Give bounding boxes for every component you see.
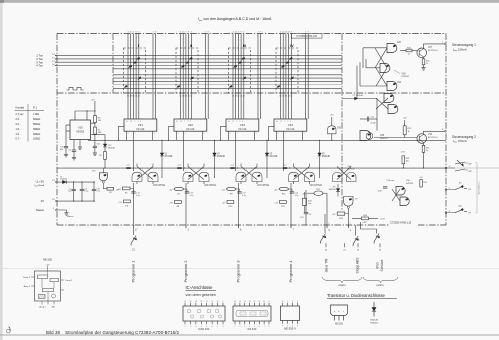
svg-text:1N4148: 1N4148 bbox=[322, 156, 331, 158]
resistor bbox=[403, 126, 406, 135]
block I wire 1 bbox=[127, 34, 129, 120]
svg-text:100kΩ: 100kΩ bbox=[33, 138, 40, 141]
svg-text:14: 14 bbox=[244, 301, 246, 303]
svg-text:V7 1N4148: V7 1N4148 bbox=[353, 95, 364, 97]
svg-text:10: 10 bbox=[276, 121, 278, 123]
IC V21 pin wire bbox=[152, 131, 154, 140]
flipflop cluster V33 bbox=[294, 167, 310, 180]
svg-text:10n: 10n bbox=[60, 149, 63, 151]
svg-text:1: 1 bbox=[134, 121, 135, 123]
flipflop cluster V27 bbox=[241, 167, 257, 180]
program drop wire x186 bbox=[185, 183, 187, 225]
bus return line 2 bbox=[113, 77, 342, 79]
transistor matrix block IV bbox=[276, 48, 298, 93]
filter capacitors bbox=[73, 181, 74, 182]
svg-text:Programm 2: Programm 2 bbox=[183, 260, 188, 283]
wire V5 bbox=[319, 140, 321, 178]
svg-text:Programm 1: Programm 1 bbox=[130, 260, 135, 283]
capacitor C15 bbox=[186, 189, 188, 192]
svg-text:4: 4 bbox=[242, 121, 243, 123]
resistor bbox=[94, 127, 97, 134]
wire V30 up bbox=[331, 117, 333, 126]
transistor matrix block I bbox=[124, 48, 146, 93]
svg-text:Ausg 2: Ausg 2 bbox=[24, 285, 31, 288]
bus tone line 4 bbox=[57, 65, 342, 67]
svg-text:13: 13 bbox=[232, 121, 234, 123]
svg-text:+5V: +5V bbox=[118, 202, 122, 204]
switch Z1 bbox=[131, 236, 136, 246]
V20 pin right a bbox=[91, 122, 95, 124]
svg-text:1N4001: 1N4001 bbox=[60, 179, 68, 181]
capacitor bbox=[230, 167, 234, 168]
svg-text:1N4148: 1N4148 bbox=[328, 189, 336, 191]
IC V22 pin wire bbox=[183, 131, 185, 140]
svg-text:Aus: Aus bbox=[459, 205, 463, 208]
svg-text:16: 16 bbox=[234, 301, 236, 303]
IC V23 pin wire bbox=[228, 131, 230, 140]
svg-text:13: 13 bbox=[249, 301, 251, 303]
IC V21 pin wire bbox=[126, 131, 128, 140]
svg-text:+5V: +5V bbox=[274, 203, 278, 205]
svg-text:R 1: R 1 bbox=[33, 106, 38, 110]
svg-text:FZH111: FZH111 bbox=[348, 168, 356, 170]
resistor bbox=[280, 201, 287, 204]
IC V24 pin wire bbox=[283, 131, 285, 140]
DIP1 internal gate doodles bbox=[187, 309, 191, 313]
capacitor bbox=[92, 189, 96, 190]
svg-text:extern: extern bbox=[376, 283, 384, 287]
wire rail to V20 pin bbox=[86, 111, 88, 120]
wire V9 down bbox=[347, 208, 349, 225]
svg-text:+5V: +5V bbox=[46, 264, 50, 266]
svg-text:10: 10 bbox=[176, 121, 178, 123]
svg-text:FZ 110: FZ 110 bbox=[137, 128, 145, 131]
rail y140 bbox=[88, 139, 446, 141]
svg-text:6: 6 bbox=[212, 326, 213, 328]
left page edge strip bbox=[0, 0, 3, 340]
V20 pin bottom a bbox=[73, 140, 75, 151]
svg-text:16: 16 bbox=[184, 301, 186, 303]
svg-text:11: 11 bbox=[258, 301, 260, 303]
svg-text:V20: V20 bbox=[78, 125, 83, 129]
IC V22 wire to flipflop bbox=[183, 140, 185, 171]
svg-text:+5V: +5V bbox=[91, 99, 95, 101]
V20 output wire bbox=[91, 134, 105, 136]
svg-text:R19: R19 bbox=[424, 182, 427, 184]
svg-text:2: 2 bbox=[285, 133, 286, 135]
resistor bbox=[406, 49, 412, 52]
wire to R3 bbox=[103, 188, 107, 190]
svg-text:7: 7 bbox=[287, 301, 288, 303]
page corner glyph bbox=[7, 329, 11, 333]
svg-text:2: 2 bbox=[137, 121, 138, 123]
block II wire 2 bbox=[182, 34, 184, 120]
V20 pin left a bbox=[66, 124, 70, 126]
switch S4 bbox=[374, 234, 379, 244]
capacitor bbox=[80, 189, 84, 190]
svg-text:2: 2 bbox=[328, 222, 329, 224]
terminal bbox=[445, 212, 447, 214]
bus tone line 1 bbox=[57, 55, 342, 57]
resistor bbox=[175, 201, 182, 204]
Masse terminal bbox=[55, 209, 57, 211]
capacitor C17 bbox=[239, 189, 241, 192]
svg-text:extern: extern bbox=[338, 283, 346, 287]
resistor bbox=[362, 217, 369, 220]
gate V29a bbox=[384, 94, 394, 103]
svg-text:C72382-A700-L31: C72382-A700-L31 bbox=[296, 34, 317, 38]
transistor V32 output 2 bbox=[417, 134, 427, 144]
IC V23 left pin bbox=[221, 125, 227, 127]
IC V21 wire to flipflop bbox=[133, 140, 135, 171]
inner frame left bbox=[112, 34, 114, 93]
svg-text:1,0 -: 1,0 - bbox=[16, 133, 21, 136]
terminal 7 bbox=[444, 43, 446, 45]
resistor table bbox=[16, 106, 38, 110]
svg-text:1: 1 bbox=[185, 326, 186, 328]
capacitor C13 bbox=[133, 188, 135, 191]
resistor bbox=[107, 187, 114, 190]
svg-text:Programm 3: Programm 3 bbox=[235, 260, 240, 283]
resistor bbox=[422, 145, 425, 152]
wire V1 bbox=[161, 140, 163, 178]
capacitor bbox=[126, 167, 130, 168]
svg-text:FZ 110: FZ 110 bbox=[287, 128, 295, 131]
wire V30 down bbox=[331, 134, 333, 141]
resistor bbox=[279, 187, 289, 190]
svg-text:FZ 110: FZ 110 bbox=[248, 327, 257, 331]
svg-text:2: 2 bbox=[287, 121, 288, 123]
svg-text:+5V: +5V bbox=[274, 189, 278, 191]
svg-text:2: 2 bbox=[350, 222, 351, 224]
block II wire 4 bbox=[188, 34, 190, 120]
wire rail to V20 top bbox=[74, 111, 76, 120]
svg-text:2,7 sec: 2,7 sec bbox=[16, 113, 25, 116]
svg-text:0,1μ: 0,1μ bbox=[84, 191, 88, 193]
resistor bbox=[123, 187, 131, 190]
resistor bbox=[302, 198, 306, 205]
wire to C3 bbox=[65, 125, 67, 147]
gate V9 bbox=[344, 197, 353, 207]
svg-text:2: 2 bbox=[190, 326, 191, 328]
svg-text:8: 8 bbox=[223, 326, 224, 328]
svg-text:Stopp ABS: Stopp ABS bbox=[355, 257, 359, 274]
block IV wire 3 bbox=[285, 34, 287, 120]
svg-text:+5V: +5V bbox=[222, 203, 226, 205]
flipflop cluster V26 bbox=[188, 167, 204, 180]
V20 pin left b bbox=[66, 130, 70, 132]
bus faint line bbox=[113, 84, 342, 86]
IC V23 pin wire bbox=[235, 131, 237, 140]
svg-text:0,7 -: 0,7 - bbox=[16, 138, 21, 141]
block IV wire 5 bbox=[290, 34, 292, 120]
wire V3 bbox=[266, 140, 268, 178]
program drop wire x238.5 bbox=[238, 183, 240, 225]
svg-text:FZH101: FZH101 bbox=[406, 183, 414, 185]
flipflop block bbox=[43, 288, 54, 291]
svg-text:12: 12 bbox=[253, 301, 255, 303]
svg-text:10k: 10k bbox=[406, 161, 409, 163]
diode legend bbox=[373, 302, 375, 308]
capacitor bbox=[131, 192, 135, 193]
svg-text:NE 555 V: NE 555 V bbox=[284, 326, 296, 330]
svg-text:1N4148: 1N4148 bbox=[108, 147, 116, 149]
svg-text:Masse: Masse bbox=[67, 216, 74, 218]
resistor bbox=[104, 152, 107, 160]
svg-text:9: 9 bbox=[269, 301, 270, 303]
svg-text:-15V: -15V bbox=[401, 152, 406, 154]
program drop wire x291 bbox=[290, 183, 292, 225]
svg-text:1N4148: 1N4148 bbox=[164, 156, 173, 158]
svg-text:Schütze: Schütze bbox=[380, 259, 384, 271]
drop wire x327 bbox=[326, 193, 328, 225]
svg-text:FZH101: FZH101 bbox=[380, 138, 389, 140]
svg-text:2: 2 bbox=[239, 326, 240, 328]
IC V22 pin wire bbox=[202, 131, 204, 140]
cluster V36 bbox=[337, 167, 351, 180]
bus tone line 2 bbox=[57, 58, 342, 60]
block IV right wire a bbox=[305, 34, 307, 120]
svg-text:Ausg 1: Ausg 1 bbox=[39, 305, 46, 308]
svg-text:7: 7 bbox=[217, 326, 218, 328]
block I transistors bbox=[137, 57, 140, 60]
ground C14 bbox=[93, 153, 97, 155]
svg-text:+5V: +5V bbox=[403, 118, 407, 120]
gate bbox=[148, 172, 158, 181]
wire to switch S2 bbox=[324, 214, 326, 225]
gate V30a bbox=[396, 187, 405, 196]
svg-text:NE555: NE555 bbox=[76, 131, 84, 134]
svg-text:1 MΩ: 1 MΩ bbox=[33, 113, 39, 116]
IC package DIP16 FZH101 bbox=[183, 306, 225, 321]
block IV wire 1 bbox=[280, 34, 282, 120]
svg-text:8: 8 bbox=[128, 133, 129, 135]
svg-text:6: 6 bbox=[259, 326, 260, 328]
svg-text:6: 6 bbox=[304, 133, 305, 135]
V20 pin bottom b bbox=[79, 140, 81, 148]
switch Z1 bbox=[133, 228, 135, 235]
svg-text:Ub +5V: Ub +5V bbox=[36, 180, 45, 185]
IC V24 pin wire bbox=[302, 131, 304, 140]
hatched resistor bbox=[39, 295, 46, 299]
resistor bbox=[174, 187, 184, 190]
block IV right wire b bbox=[307, 34, 309, 120]
svg-text:820kΩ: 820kΩ bbox=[33, 118, 40, 121]
svg-text:6: 6 bbox=[292, 301, 293, 303]
bus return line 3 bbox=[113, 80, 342, 82]
svg-text:11: 11 bbox=[211, 301, 213, 303]
comparator block 2 bbox=[50, 278, 59, 281]
diode V3 bbox=[265, 153, 269, 156]
gate V26 bbox=[387, 44, 397, 53]
bus line low bbox=[113, 87, 342, 89]
capacitor bbox=[177, 167, 181, 168]
svg-text:V26 FZH111: V26 FZH111 bbox=[204, 185, 217, 187]
bracket wire bbox=[361, 225, 377, 234]
gate bbox=[347, 173, 357, 182]
gate bbox=[333, 173, 343, 182]
block III wire 2 bbox=[235, 34, 237, 120]
transistor V27 output 1 bbox=[417, 48, 427, 58]
cross coupling wires upper bbox=[375, 48, 387, 68]
curly brace extern 1 bbox=[322, 277, 362, 283]
IC package DIP8 NE555 bbox=[281, 306, 300, 321]
block I right wire a bbox=[152, 34, 154, 120]
gate bbox=[289, 172, 299, 181]
capacitor bbox=[64, 147, 68, 148]
block IV wire 2 bbox=[282, 34, 284, 120]
block II wire 1 bbox=[180, 34, 182, 120]
svg-text:Ausschaltverz.: Ausschaltverz. bbox=[478, 181, 481, 194]
svg-text:+5V: +5V bbox=[221, 189, 225, 191]
gate V29b bbox=[388, 105, 398, 114]
svg-text:8: 8 bbox=[269, 326, 270, 328]
block III wire 3 bbox=[237, 34, 239, 120]
IC package DIP16 FZ110 bbox=[233, 306, 271, 321]
outer frame top bbox=[57, 33, 446, 35]
capacitor C16 bbox=[291, 189, 293, 192]
IC V21 FZ110 bbox=[124, 119, 157, 131]
wire V10 output bbox=[102, 183, 104, 189]
svg-text:0,1μ: 0,1μ bbox=[190, 195, 194, 197]
IC V20 NE555 bbox=[70, 120, 91, 140]
svg-text:V33 FZH111: V33 FZH111 bbox=[310, 185, 323, 187]
gate bbox=[252, 172, 262, 181]
wire V10 input bbox=[102, 168, 104, 173]
svg-text:10k: 10k bbox=[308, 203, 311, 205]
resistor bbox=[420, 180, 423, 188]
svg-text:FZ 110: FZ 110 bbox=[239, 128, 247, 131]
diode V5 bbox=[318, 153, 322, 156]
svg-text:0,1μ: 0,1μ bbox=[295, 195, 299, 197]
svg-text:FZH 101: FZH 101 bbox=[199, 327, 210, 331]
svg-text:V21: V21 bbox=[138, 123, 143, 127]
svg-text:2: 2 bbox=[237, 133, 238, 135]
DIP2 internal bar bbox=[236, 311, 268, 317]
svg-text:Bild 38 Stromlaufplan der G: Bild 38 Stromlaufplan der Gangsteuerung … bbox=[46, 330, 180, 335]
svg-text:1N4148: 1N4148 bbox=[370, 320, 378, 322]
svg-text:von oben gesehen: von oben gesehen bbox=[186, 293, 216, 297]
gate bbox=[305, 172, 315, 181]
outer frame right bbox=[445, 34, 447, 226]
top gray bar bbox=[0, 0, 499, 3]
switch S3 bbox=[353, 236, 358, 246]
switch S2 bbox=[320, 234, 325, 244]
gate bbox=[236, 172, 246, 181]
terminal bbox=[445, 189, 447, 191]
comparator block 1 bbox=[38, 275, 48, 279]
svg-text:2: 2 bbox=[187, 121, 188, 123]
IC V21 pin wire bbox=[133, 131, 135, 140]
svg-text:FZH101: FZH101 bbox=[402, 76, 411, 78]
svg-text:V25 FZH111: V25 FZH111 bbox=[153, 185, 166, 187]
block II wire 5 bbox=[190, 34, 192, 120]
svg-text:Comp 2: Comp 2 bbox=[65, 280, 73, 282]
svg-text:1M: 1M bbox=[98, 120, 101, 122]
svg-text:12: 12 bbox=[206, 301, 208, 303]
inner frame lower rail bbox=[57, 92, 446, 94]
diode V2 bbox=[213, 153, 217, 156]
svg-text:Gleis TW: Gleis TW bbox=[324, 258, 328, 272]
IC V23 pin wire bbox=[254, 131, 256, 140]
emitter resistor R26 bbox=[423, 57, 425, 59]
IC V23 FZ110 bbox=[226, 119, 259, 131]
svg-text:3: 3 bbox=[244, 326, 245, 328]
svg-text:IC-Anschlüsse: IC-Anschlüsse bbox=[186, 285, 214, 290]
diode V12 bbox=[104, 140, 105, 141]
resistor bbox=[124, 200, 131, 203]
svg-text:C72382-A700-L15: C72382-A700-L15 bbox=[390, 221, 412, 225]
svg-text:Programm 4: Programm 4 bbox=[288, 260, 293, 283]
gate V31 bbox=[387, 82, 397, 91]
IC V22 FZ110 bbox=[174, 119, 207, 131]
block II right wire a bbox=[205, 34, 207, 120]
svg-text:1N4001: 1N4001 bbox=[370, 323, 378, 325]
svg-text:V22: V22 bbox=[188, 123, 193, 127]
svg-text:III: III bbox=[243, 44, 246, 48]
ground Masse bbox=[64, 213, 68, 215]
program drop wire x133.5 bbox=[133, 183, 135, 225]
svg-text:1: 1 bbox=[282, 325, 283, 327]
gate V28 bbox=[360, 131, 371, 141]
block II wire 3 bbox=[185, 34, 187, 120]
svg-text:6: 6 bbox=[204, 133, 205, 135]
diode V1 power bbox=[63, 180, 67, 183]
diode V1 bbox=[160, 153, 164, 156]
diode V5b bbox=[336, 189, 340, 192]
gate bbox=[183, 172, 193, 181]
resistor bbox=[422, 59, 425, 65]
wire V2 bbox=[214, 140, 216, 178]
rail y168 bbox=[57, 167, 446, 169]
wire to switch S3 bbox=[355, 225, 357, 236]
svg-text:FZ 110: FZ 110 bbox=[187, 128, 195, 131]
IC V22 pin wire bbox=[176, 131, 178, 140]
svg-text:4: 4 bbox=[190, 121, 191, 123]
capacitor bbox=[237, 192, 241, 193]
svg-text:1: 1 bbox=[184, 121, 185, 123]
svg-text:Imax von den Ausgängen A,B,C,D: Imax von den Ausgängen A,B,C,D und M : 1… bbox=[198, 17, 272, 22]
svg-text:BC135: BC135 bbox=[335, 322, 343, 325]
caption rule bbox=[0, 334, 499, 336]
svg-text:V23: V23 bbox=[240, 123, 245, 127]
svg-text:V27 FZH111: V27 FZH111 bbox=[257, 185, 270, 187]
svg-text:4: 4 bbox=[297, 325, 298, 327]
svg-text:4 Ton: 4 Ton bbox=[36, 64, 43, 68]
ground V27 emitter bbox=[421, 68, 425, 70]
outer frame left bbox=[56, 34, 58, 226]
svg-text:1k: 1k bbox=[426, 150, 428, 152]
svg-text:7: 7 bbox=[264, 326, 265, 328]
svg-text:0,1μ: 0,1μ bbox=[136, 195, 140, 197]
svg-text:0V: 0V bbox=[41, 199, 44, 203]
collector wire to terminal 7 bbox=[424, 44, 445, 49]
bus tone line 3 bbox=[57, 61, 342, 63]
svg-text:+5V: +5V bbox=[169, 203, 173, 205]
block III transistors bbox=[242, 57, 245, 60]
svg-text:IV: IV bbox=[290, 44, 294, 48]
svg-text:14: 14 bbox=[195, 301, 197, 303]
capacitor bbox=[290, 192, 294, 193]
svg-text:8: 8 bbox=[282, 301, 283, 303]
gate bbox=[328, 126, 337, 134]
svg-text:4,7μF: 4,7μF bbox=[371, 122, 377, 124]
svg-text:V24: V24 bbox=[288, 123, 293, 127]
svg-text:Comp 1: Comp 1 bbox=[23, 277, 31, 279]
svg-text:6: 6 bbox=[154, 133, 155, 135]
block I wire 3 bbox=[132, 34, 134, 120]
IC V21 left pin bbox=[119, 125, 125, 127]
